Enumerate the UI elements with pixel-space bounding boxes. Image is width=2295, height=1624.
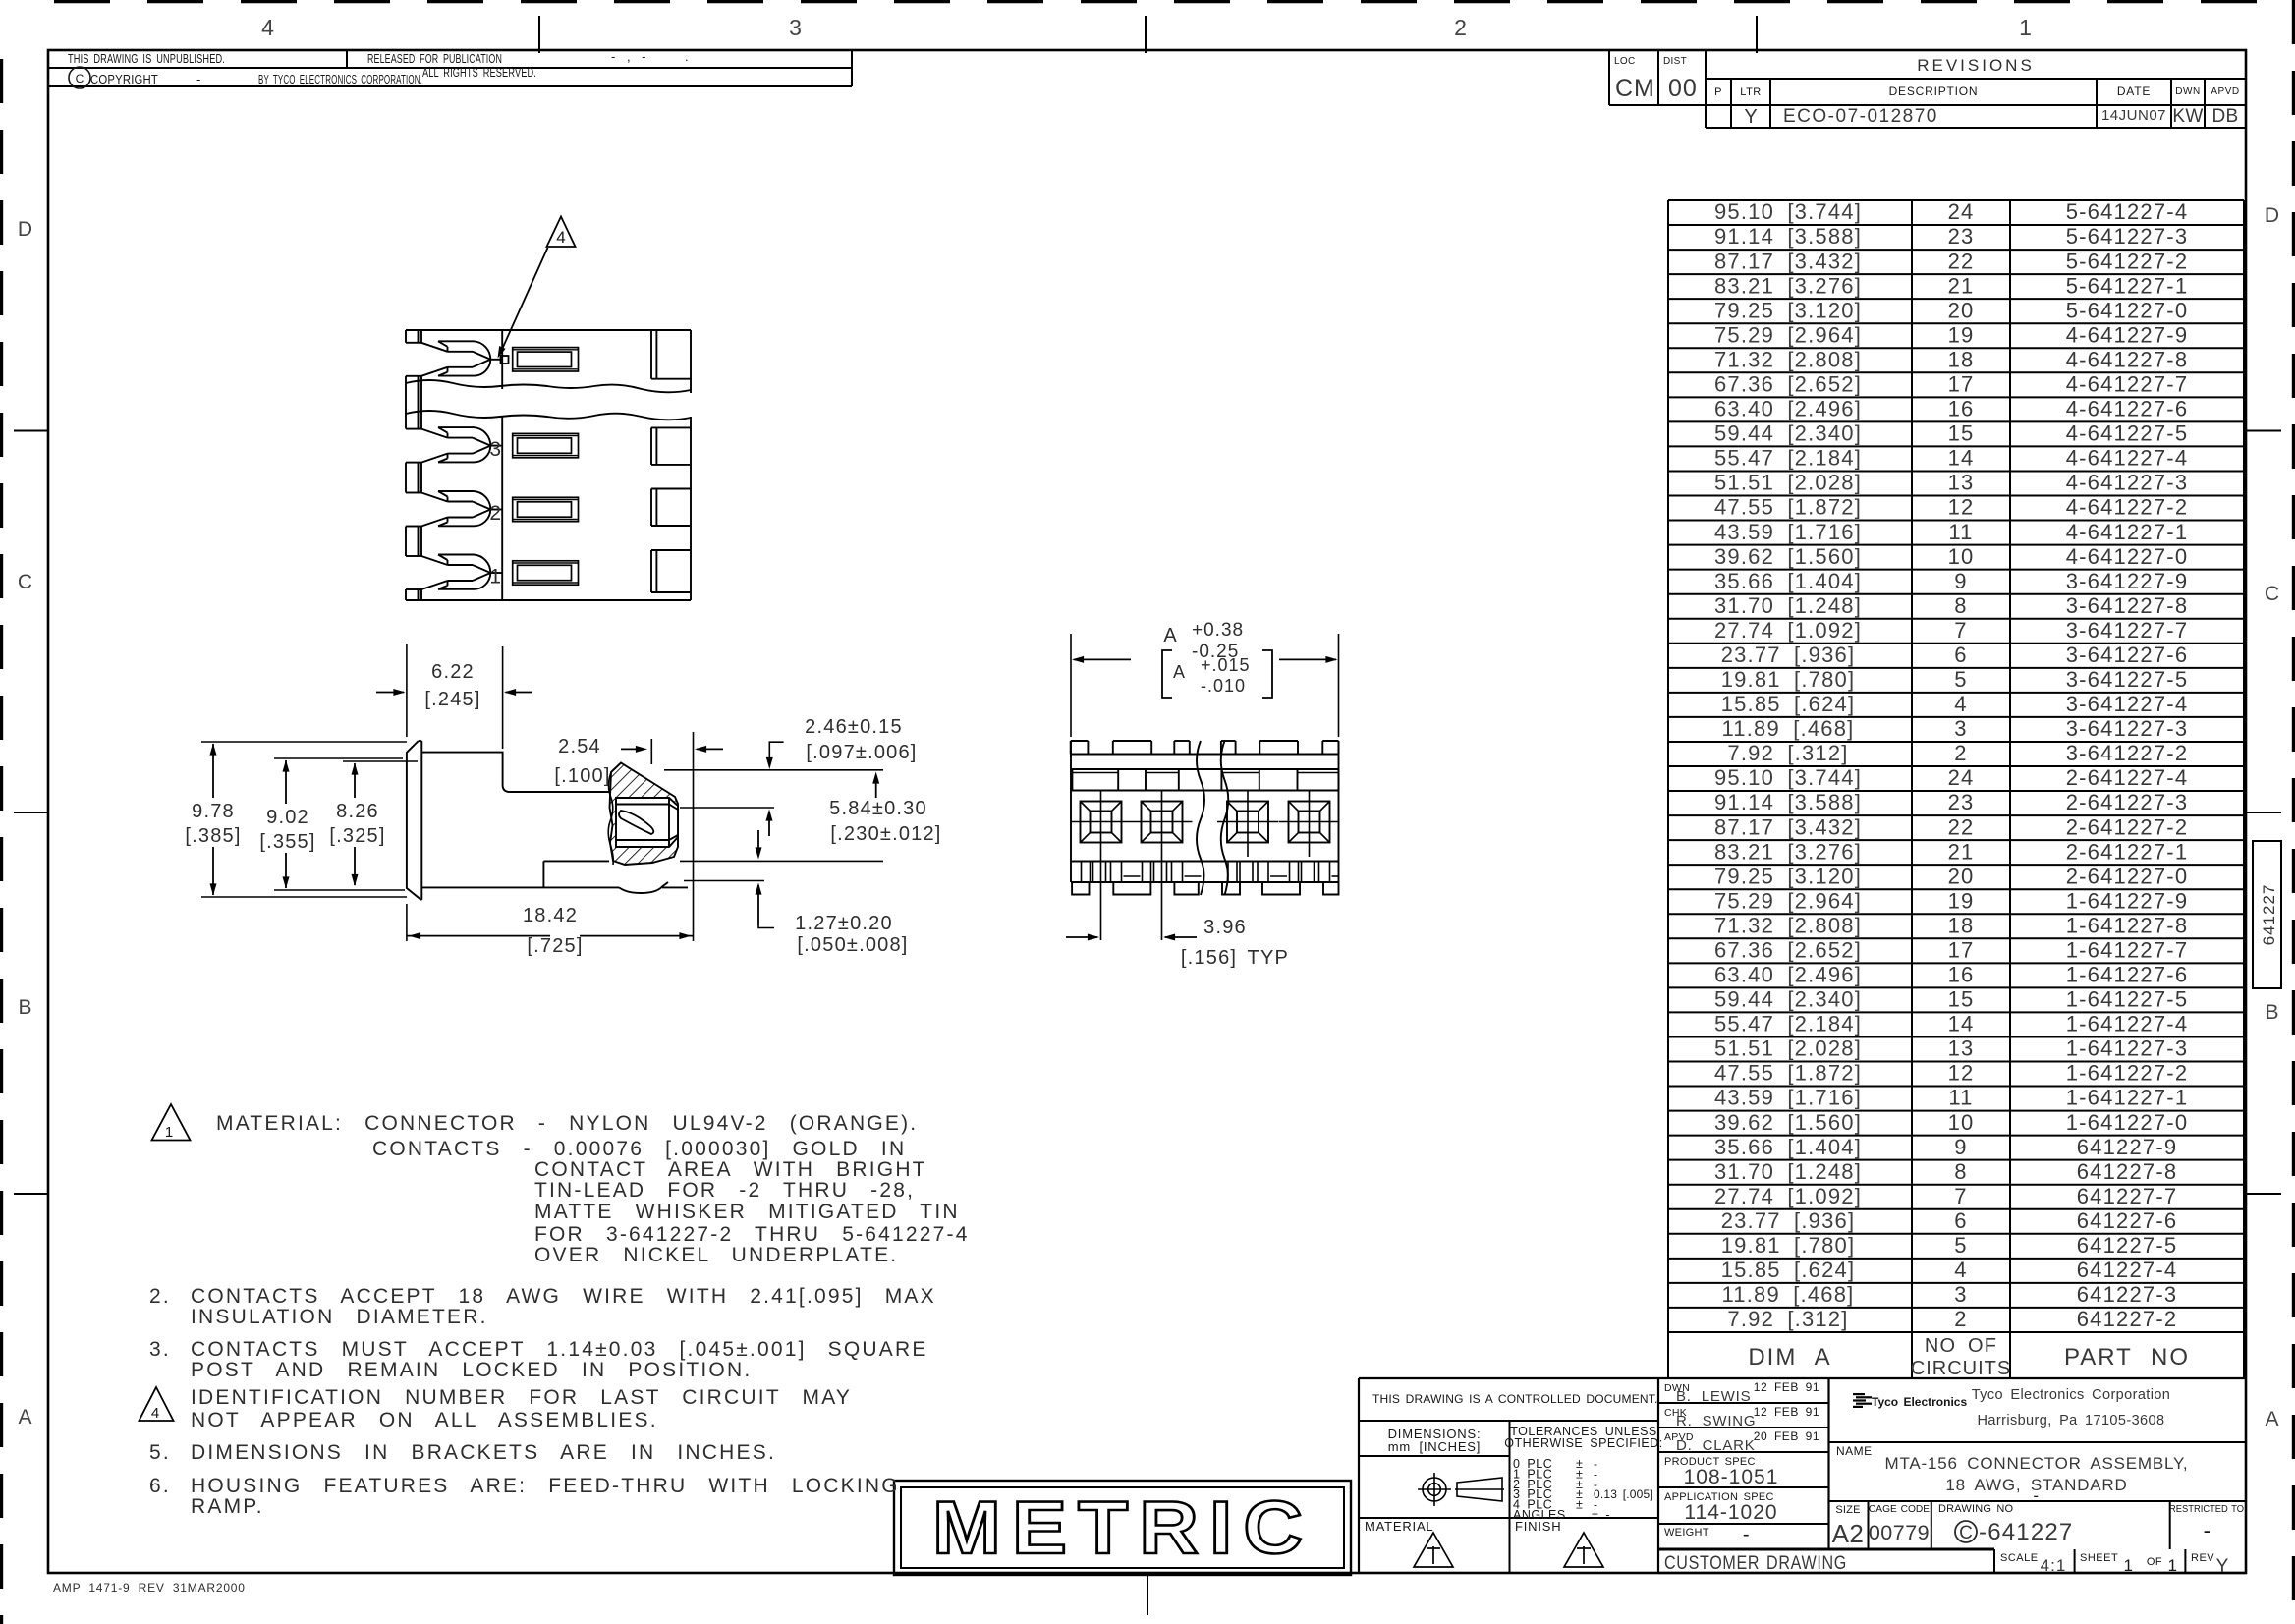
svg-text:3-641227-9: 3-641227-9 xyxy=(2066,569,2189,593)
svg-text:91.14 [3.588]: 91.14 [3.588] xyxy=(1714,224,1862,249)
svg-text:2-641227-0: 2-641227-0 xyxy=(2066,864,2189,888)
svg-text:4-641227-7: 4-641227-7 xyxy=(2066,372,2189,397)
svg-text:OVER NICKEL UNDERPLATE.: OVER NICKEL UNDERPLATE. xyxy=(534,1244,898,1266)
svg-text:2: 2 xyxy=(1954,1307,1967,1331)
svg-text:15.85 [.624]: 15.85 [.624] xyxy=(1721,692,1856,716)
svg-text:3-641227-6: 3-641227-6 xyxy=(2066,643,2189,667)
svg-text:11: 11 xyxy=(1948,520,1973,544)
svg-text:641227-4: 641227-4 xyxy=(2077,1258,2178,1282)
svg-text:4-641227-3: 4-641227-3 xyxy=(2066,471,2189,495)
svg-text:B: B xyxy=(18,996,32,1019)
svg-text:[.230±.012]: [.230±.012] xyxy=(830,823,941,845)
svg-text:[.156] TYP: [.156] TYP xyxy=(1181,947,1289,969)
svg-text:87.17 [3.432]: 87.17 [3.432] xyxy=(1714,814,1862,839)
svg-text:5.: 5. xyxy=(149,1441,171,1464)
svg-text:21: 21 xyxy=(1948,839,1975,864)
svg-text:1: 1 xyxy=(2019,15,2033,40)
svg-text:7: 7 xyxy=(1954,1184,1967,1208)
svg-text:15: 15 xyxy=(1948,987,1975,1012)
svg-text:[.097±.006]: [.097±.006] xyxy=(806,742,917,763)
svg-text:17: 17 xyxy=(1948,372,1975,397)
svg-text:55.47 [2.184]: 55.47 [2.184] xyxy=(1714,1012,1862,1036)
svg-text:1: 1 xyxy=(2124,1556,2135,1575)
svg-text:A2: A2 xyxy=(1832,1519,1865,1548)
svg-text:641227-2: 641227-2 xyxy=(2077,1307,2178,1331)
svg-text:31.70 [1.248]: 31.70 [1.248] xyxy=(1714,593,1862,618)
svg-text:BY TYCO ELECTRONICS CORPORATIO: BY TYCO ELECTRONICS CORPORATION. xyxy=(258,72,422,86)
svg-text:3-641227-2: 3-641227-2 xyxy=(2066,741,2189,765)
svg-text:4: 4 xyxy=(261,15,275,40)
svg-text:3: 3 xyxy=(1954,1282,1967,1307)
svg-text:12: 12 xyxy=(1948,495,1975,520)
svg-text:DESCRIPTION: DESCRIPTION xyxy=(1889,84,1979,98)
svg-text:641227-5: 641227-5 xyxy=(2077,1233,2178,1258)
svg-text:AMP 1471-9 REV 31MAR2000: AMP 1471-9 REV 31MAR2000 xyxy=(53,1581,246,1595)
svg-text:20: 20 xyxy=(1948,864,1975,888)
svg-text:95.10 [3.744]: 95.10 [3.744] xyxy=(1714,765,1862,790)
svg-text:641227: 641227 xyxy=(2260,884,2278,946)
svg-text:19: 19 xyxy=(1948,888,1975,913)
svg-text:1-641227-0: 1-641227-0 xyxy=(2066,1110,2189,1135)
svg-text:+0.38: +0.38 xyxy=(1192,620,1244,641)
svg-text:-: - xyxy=(196,72,202,86)
svg-text:1-641227-6: 1-641227-6 xyxy=(2066,963,2189,987)
svg-text:ALL RIGHTS RESERVED.: ALL RIGHTS RESERVED. xyxy=(422,65,536,80)
svg-text:2: 2 xyxy=(1454,15,1468,40)
svg-text:- , -: - , - xyxy=(611,49,647,64)
svg-text:[.245]: [.245] xyxy=(424,689,480,710)
svg-text:+.015: +.015 xyxy=(1201,655,1251,675)
svg-text:Tyco Electronics: Tyco Electronics xyxy=(1872,1395,1967,1409)
svg-text:[.725]: [.725] xyxy=(527,935,583,957)
svg-text:IDENTIFICATION NUMBER FOR LAST: IDENTIFICATION NUMBER FOR LAST CIRCUIT M… xyxy=(191,1386,852,1409)
svg-text:DIMENSIONS IN BRACKETS ARE IN: DIMENSIONS IN BRACKETS ARE IN INCHES. xyxy=(191,1441,776,1464)
svg-text:79.25 [3.120]: 79.25 [3.120] xyxy=(1714,864,1862,888)
svg-text:2: 2 xyxy=(489,502,501,525)
svg-text:D. CLARK: D. CLARK xyxy=(1676,1437,1756,1454)
svg-text:75.29 [2.964]: 75.29 [2.964] xyxy=(1714,888,1862,913)
svg-text:PART NO: PART NO xyxy=(2064,1344,2190,1371)
svg-text:THIS DRAWING IS A CONTROLLED D: THIS DRAWING IS A CONTROLLED DOCUMENT. xyxy=(1372,1392,1658,1406)
svg-text:1-641227-2: 1-641227-2 xyxy=(2066,1061,2189,1086)
svg-text:B: B xyxy=(2265,1001,2279,1024)
svg-text:COPYRIGHT: COPYRIGHT xyxy=(90,72,158,86)
svg-text:1: 1 xyxy=(165,1124,173,1141)
svg-text:15.85 [.624]: 15.85 [.624] xyxy=(1721,1258,1856,1282)
svg-text:5-641227-1: 5-641227-1 xyxy=(2066,273,2189,298)
svg-text:DIM A: DIM A xyxy=(1748,1344,1831,1371)
svg-text:RESTRICTED TO: RESTRICTED TO xyxy=(2169,1504,2244,1515)
svg-text:4-641227-0: 4-641227-0 xyxy=(2066,544,2189,569)
svg-text:NO OF: NO OF xyxy=(1925,1335,1997,1357)
svg-text:METRIC: METRIC xyxy=(932,1486,1314,1570)
svg-text:3-641227-8: 3-641227-8 xyxy=(2066,593,2189,618)
svg-text:KW: KW xyxy=(2172,106,2203,127)
svg-text:CIRCUITS: CIRCUITS xyxy=(1911,1358,2011,1379)
svg-text:79.25 [3.120]: 79.25 [3.120] xyxy=(1714,298,1862,322)
svg-text:1.27±0.20: 1.27±0.20 xyxy=(795,913,893,934)
svg-text:5: 5 xyxy=(1954,1233,1967,1258)
svg-text:1-641227-5: 1-641227-5 xyxy=(2066,987,2189,1012)
svg-text:23.77 [.936]: 23.77 [.936] xyxy=(1721,1208,1856,1233)
svg-text:00779: 00779 xyxy=(1869,1521,1930,1544)
svg-text:1-641227-8: 1-641227-8 xyxy=(2066,913,2189,937)
svg-text:11.89 [.468]: 11.89 [.468] xyxy=(1722,1282,1855,1307)
svg-text:24: 24 xyxy=(1948,199,1975,224)
svg-text:1-641227-9: 1-641227-9 xyxy=(2066,888,2189,913)
svg-text:14: 14 xyxy=(1948,446,1975,471)
svg-text:R. SWING: R. SWING xyxy=(1676,1413,1756,1429)
svg-text:12 FEB 91: 12 FEB 91 xyxy=(1754,1380,1819,1394)
svg-text:NOT APPEAR ON ALL ASSEMBLIES.: NOT APPEAR ON ALL ASSEMBLIES. xyxy=(191,1409,658,1431)
svg-text:1-641227-7: 1-641227-7 xyxy=(2066,937,2189,962)
svg-text:SHEET: SHEET xyxy=(2080,1552,2118,1564)
svg-text:MTA-156 CONNECTOR ASSEMBLY,: MTA-156 CONNECTOR ASSEMBLY, xyxy=(1885,1454,2189,1473)
svg-text:3.96: 3.96 xyxy=(1203,917,1247,938)
svg-text:RAMP.: RAMP. xyxy=(191,1495,264,1518)
svg-text:641227-9: 641227-9 xyxy=(2077,1135,2178,1159)
svg-text:[.355]: [.355] xyxy=(259,831,315,853)
svg-text:-: - xyxy=(1743,1524,1751,1545)
svg-text:63.40 [2.496]: 63.40 [2.496] xyxy=(1714,963,1862,987)
svg-text:18: 18 xyxy=(1948,913,1975,937)
svg-text:4:1: 4:1 xyxy=(2041,1556,2067,1575)
svg-text:[.325]: [.325] xyxy=(329,825,385,847)
svg-text:MATERIAL: CONNECTOR - NYLON UL: MATERIAL: CONNECTOR - NYLON UL94V-2 (ORA… xyxy=(216,1112,918,1135)
svg-text:mm [INCHES]: mm [INCHES] xyxy=(1388,1439,1481,1454)
svg-text:22: 22 xyxy=(1948,249,1975,273)
svg-text:20 FEB 91: 20 FEB 91 xyxy=(1754,1429,1819,1443)
svg-text:Y: Y xyxy=(2216,1556,2229,1577)
svg-text:1-641227-1: 1-641227-1 xyxy=(2066,1086,2189,1110)
svg-text:20: 20 xyxy=(1948,298,1975,322)
svg-text:87.17 [3.432]: 87.17 [3.432] xyxy=(1714,249,1862,273)
svg-text:22: 22 xyxy=(1948,814,1975,839)
svg-text:6.22: 6.22 xyxy=(431,661,475,683)
svg-text:19.81 [.780]: 19.81 [.780] xyxy=(1721,667,1856,692)
svg-text:RELEASED FOR PUBLICATION: RELEASED FOR PUBLICATION xyxy=(367,51,502,66)
svg-text:71.32 [2.808]: 71.32 [2.808] xyxy=(1714,913,1862,937)
svg-text:MATTE WHISKER MITIGATED TIN: MATTE WHISKER MITIGATED TIN xyxy=(534,1201,960,1223)
svg-text:19: 19 xyxy=(1948,322,1975,347)
svg-text:27.74 [1.092]: 27.74 [1.092] xyxy=(1714,618,1862,643)
svg-text:91.14 [3.588]: 91.14 [3.588] xyxy=(1714,790,1862,814)
svg-text:13: 13 xyxy=(1948,471,1975,495)
svg-text:A: A xyxy=(1173,662,1185,682)
svg-text:5-641227-3: 5-641227-3 xyxy=(2066,224,2189,249)
svg-text:-.010: -.010 xyxy=(1201,676,1246,696)
svg-text:14: 14 xyxy=(1948,1012,1975,1036)
svg-text:2-641227-3: 2-641227-3 xyxy=(2066,790,2189,814)
svg-text:19.81 [.780]: 19.81 [.780] xyxy=(1721,1233,1856,1258)
svg-text:75.29 [2.964]: 75.29 [2.964] xyxy=(1714,322,1862,347)
svg-text:12: 12 xyxy=(1948,1061,1975,1086)
svg-text:DB: DB xyxy=(2212,106,2239,127)
svg-text:9.02: 9.02 xyxy=(266,807,309,828)
svg-text:43.59 [1.716]: 43.59 [1.716] xyxy=(1714,520,1862,544)
svg-text:A: A xyxy=(18,1406,32,1428)
svg-text:23.77 [.936]: 23.77 [.936] xyxy=(1721,643,1856,667)
svg-text:59.44 [2.340]: 59.44 [2.340] xyxy=(1714,421,1862,446)
svg-text:23: 23 xyxy=(1948,224,1975,249)
svg-text:CM: CM xyxy=(1615,75,1655,102)
svg-text:[.100]: [.100] xyxy=(554,765,610,787)
svg-text:C: C xyxy=(1959,1523,1973,1543)
svg-text:18: 18 xyxy=(1948,347,1975,371)
svg-text:4-641227-4: 4-641227-4 xyxy=(2066,446,2189,471)
svg-text:51.51 [2.028]: 51.51 [2.028] xyxy=(1714,471,1862,495)
svg-text:OTHERWISE SPECIFIED:: OTHERWISE SPECIFIED: xyxy=(1504,1436,1662,1450)
svg-text:95.10 [3.744]: 95.10 [3.744] xyxy=(1714,199,1862,224)
svg-text:83.21 [3.276]: 83.21 [3.276] xyxy=(1714,839,1862,864)
svg-text:POST AND REMAIN LOCKED IN POSI: POST AND REMAIN LOCKED IN POSITION. xyxy=(191,1359,752,1381)
svg-text:2-641227-1: 2-641227-1 xyxy=(2066,839,2189,864)
svg-text:±: ± xyxy=(1576,1498,1583,1512)
svg-text:CUSTOMER DRAWING: CUSTOMER DRAWING xyxy=(1664,1553,1847,1574)
svg-text:13: 13 xyxy=(1948,1036,1975,1061)
svg-text:P: P xyxy=(1714,86,1722,98)
svg-text:SIZE: SIZE xyxy=(1835,1504,1860,1516)
svg-text:C: C xyxy=(76,72,84,85)
svg-text:641227-7: 641227-7 xyxy=(2077,1184,2178,1208)
svg-text:FINISH: FINISH xyxy=(1515,1519,1561,1534)
svg-text:A: A xyxy=(1163,625,1177,646)
svg-text:51.51 [2.028]: 51.51 [2.028] xyxy=(1714,1036,1862,1061)
svg-text:83.21 [3.276]: 83.21 [3.276] xyxy=(1714,273,1862,298)
svg-text:47.55 [1.872]: 47.55 [1.872] xyxy=(1714,1061,1862,1086)
svg-text:27.74 [1.092]: 27.74 [1.092] xyxy=(1714,1184,1862,1208)
svg-text:4-641227-1: 4-641227-1 xyxy=(2066,520,2189,544)
svg-text:10: 10 xyxy=(1948,544,1975,569)
svg-text:-641227: -641227 xyxy=(1979,1519,2073,1545)
svg-text:INSULATION DIAMETER.: INSULATION DIAMETER. xyxy=(191,1306,488,1328)
svg-text:CAGE CODE: CAGE CODE xyxy=(1869,1504,1930,1515)
svg-text:Y: Y xyxy=(1744,106,1757,128)
svg-text:TIN-LEAD FOR -2 THRU -28,: TIN-LEAD FOR -2 THRU -28, xyxy=(534,1179,915,1202)
svg-text:39.62 [1.560]: 39.62 [1.560] xyxy=(1714,1110,1862,1135)
svg-text:17: 17 xyxy=(1948,937,1975,962)
svg-text:0.13 [.005]: 0.13 [.005] xyxy=(1594,1487,1653,1501)
svg-text:641227-3: 641227-3 xyxy=(2077,1282,2178,1307)
svg-text:4-641227-6: 4-641227-6 xyxy=(2066,397,2189,421)
svg-text:10: 10 xyxy=(1948,1110,1975,1135)
svg-text:1-641227-4: 1-641227-4 xyxy=(2066,1012,2189,1036)
svg-text:21: 21 xyxy=(1948,273,1975,298)
svg-text:2: 2 xyxy=(1954,741,1967,765)
svg-text:15: 15 xyxy=(1948,421,1975,446)
svg-text:-: - xyxy=(2033,1486,2040,1505)
svg-text:3-641227-7: 3-641227-7 xyxy=(2066,618,2189,643)
svg-text:1-641227-3: 1-641227-3 xyxy=(2066,1036,2189,1061)
svg-text:[.050±.008]: [.050±.008] xyxy=(797,934,908,956)
svg-text:641227-6: 641227-6 xyxy=(2077,1208,2178,1233)
svg-text:REVISIONS: REVISIONS xyxy=(1917,56,2035,75)
svg-text:DWN: DWN xyxy=(2175,86,2200,97)
svg-text:4-641227-9: 4-641227-9 xyxy=(2066,322,2189,347)
svg-text:Tyco Electronics Corporation: Tyco Electronics Corporation xyxy=(1972,1387,2171,1403)
svg-text:REV: REV xyxy=(2191,1552,2214,1564)
svg-text:LTR: LTR xyxy=(1740,86,1761,98)
svg-text:43.59 [1.716]: 43.59 [1.716] xyxy=(1714,1086,1862,1110)
svg-text:8.26: 8.26 xyxy=(336,801,379,822)
svg-text:DATE: DATE xyxy=(2117,84,2151,98)
svg-text:3: 3 xyxy=(1954,716,1967,741)
svg-text:39.62 [1.560]: 39.62 [1.560] xyxy=(1714,544,1862,569)
svg-text:CONTACTS MUST ACCEPT 1.14±0.03: CONTACTS MUST ACCEPT 1.14±0.03 [.045±.00… xyxy=(191,1338,928,1361)
svg-text:47.55 [1.872]: 47.55 [1.872] xyxy=(1714,495,1862,520)
svg-text:5-641227-4: 5-641227-4 xyxy=(2066,199,2189,224)
svg-text:C: C xyxy=(18,571,33,593)
svg-text:67.36 [2.652]: 67.36 [2.652] xyxy=(1714,372,1862,397)
svg-text:NAME: NAME xyxy=(1836,1444,1873,1458)
svg-text:WEIGHT: WEIGHT xyxy=(1664,1527,1709,1539)
svg-text:SCALE: SCALE xyxy=(2000,1552,2039,1564)
svg-text:DIST: DIST xyxy=(1663,56,1687,67)
svg-text:4: 4 xyxy=(151,1405,159,1422)
svg-text:CONTACT AREA WITH BRIGHT: CONTACT AREA WITH BRIGHT xyxy=(534,1158,927,1181)
svg-text:35.66 [1.404]: 35.66 [1.404] xyxy=(1714,1135,1862,1159)
svg-text:8: 8 xyxy=(1954,1159,1967,1184)
svg-text:6: 6 xyxy=(1954,1208,1967,1233)
svg-text:18.42: 18.42 xyxy=(523,905,578,926)
svg-text:FOR 3-641227-2 THRU 5-641227-4: FOR 3-641227-2 THRU 5-641227-4 xyxy=(534,1223,970,1246)
svg-text:MATERIAL: MATERIAL xyxy=(1365,1519,1433,1534)
svg-text:00: 00 xyxy=(1668,75,1698,102)
svg-text:7: 7 xyxy=(1954,618,1967,643)
svg-text:71.32 [2.808]: 71.32 [2.808] xyxy=(1714,347,1862,371)
svg-text:24: 24 xyxy=(1948,765,1975,790)
svg-text:CONTACTS ACCEPT 18 AWG WIRE WI: CONTACTS ACCEPT 18 AWG WIRE WITH 2.41[.0… xyxy=(191,1285,936,1308)
svg-text:LOC: LOC xyxy=(1614,56,1635,67)
svg-text:B. LEWIS: B. LEWIS xyxy=(1676,1388,1751,1405)
svg-text:12 FEB 91: 12 FEB 91 xyxy=(1754,1405,1819,1419)
svg-text:2.46±0.15: 2.46±0.15 xyxy=(805,716,903,738)
svg-text:4-641227-8: 4-641227-8 xyxy=(2066,347,2189,371)
svg-text:DRAWING NO: DRAWING NO xyxy=(1938,1503,2014,1515)
svg-text:11.89 [.468]: 11.89 [.468] xyxy=(1722,716,1855,741)
svg-text:55.47 [2.184]: 55.47 [2.184] xyxy=(1714,446,1862,471)
svg-text:7.92 [.312]: 7.92 [.312] xyxy=(1727,741,1848,765)
svg-text:CONTACTS - 0.00076 [.000030] G: CONTACTS - 0.00076 [.000030] GOLD IN xyxy=(372,1138,906,1160)
svg-text:35.66 [1.404]: 35.66 [1.404] xyxy=(1714,569,1862,593)
svg-text:8: 8 xyxy=(1954,593,1967,618)
svg-text:67.36 [2.652]: 67.36 [2.652] xyxy=(1714,937,1862,962)
svg-text:3: 3 xyxy=(489,438,501,461)
svg-text:Harrisburg, Pa 17105-3608: Harrisburg, Pa 17105-3608 xyxy=(1978,1413,2165,1428)
svg-text:16: 16 xyxy=(1948,397,1975,421)
svg-text:3.: 3. xyxy=(149,1338,171,1361)
svg-text:± -: ± - xyxy=(1592,1508,1610,1522)
svg-text:5: 5 xyxy=(1954,667,1967,692)
svg-text:6.: 6. xyxy=(149,1475,171,1497)
svg-text:11: 11 xyxy=(1948,1086,1973,1110)
svg-text:.: . xyxy=(685,49,690,64)
svg-text:3-641227-3: 3-641227-3 xyxy=(2066,716,2189,741)
svg-text:59.44 [2.340]: 59.44 [2.340] xyxy=(1714,987,1862,1012)
svg-text:D: D xyxy=(2265,204,2280,227)
svg-text:3: 3 xyxy=(789,15,803,40)
svg-text:114-1020: 114-1020 xyxy=(1684,1501,1777,1524)
svg-text:2.54: 2.54 xyxy=(558,736,601,757)
svg-text:2-641227-4: 2-641227-4 xyxy=(2066,765,2189,790)
svg-text:23: 23 xyxy=(1948,790,1975,814)
svg-text:14JUN07: 14JUN07 xyxy=(2101,107,2166,124)
svg-text:63.40 [2.496]: 63.40 [2.496] xyxy=(1714,397,1862,421)
svg-text:ECO-07-012870: ECO-07-012870 xyxy=(1783,106,1938,127)
svg-text:108-1051: 108-1051 xyxy=(1684,1466,1779,1488)
svg-text:OF: OF xyxy=(2147,1556,2162,1568)
svg-text:2-641227-2: 2-641227-2 xyxy=(2066,814,2189,839)
svg-text:HOUSING FEATURES ARE: FEED-THR: HOUSING FEATURES ARE: FEED-THRU WITH LOC… xyxy=(191,1475,900,1497)
svg-text:4: 4 xyxy=(556,228,565,247)
svg-text:5-641227-0: 5-641227-0 xyxy=(2066,298,2189,322)
svg-text:31.70 [1.248]: 31.70 [1.248] xyxy=(1714,1159,1862,1184)
svg-text:6: 6 xyxy=(1954,643,1967,667)
svg-text:7.92 [.312]: 7.92 [.312] xyxy=(1727,1307,1848,1331)
svg-text:THIS DRAWING IS UNPUBLISHED.: THIS DRAWING IS UNPUBLISHED. xyxy=(68,51,225,66)
svg-text:3-641227-5: 3-641227-5 xyxy=(2066,667,2189,692)
svg-text:1: 1 xyxy=(489,566,501,588)
svg-text:-: - xyxy=(2204,1518,2212,1542)
svg-text:2.: 2. xyxy=(149,1285,171,1308)
svg-text:9.78: 9.78 xyxy=(192,801,235,822)
svg-text:4-641227-2: 4-641227-2 xyxy=(2066,495,2189,520)
svg-text:APVD: APVD xyxy=(2211,86,2239,97)
svg-text:1: 1 xyxy=(2168,1556,2179,1575)
svg-text:4: 4 xyxy=(1954,692,1967,716)
svg-text:[.385]: [.385] xyxy=(185,825,241,847)
svg-text:4-641227-5: 4-641227-5 xyxy=(2066,421,2189,446)
svg-text:16: 16 xyxy=(1948,963,1975,987)
svg-text:A: A xyxy=(2265,1408,2279,1430)
svg-text:5-641227-2: 5-641227-2 xyxy=(2066,249,2189,273)
svg-text:9: 9 xyxy=(1954,1135,1967,1159)
svg-text:5.84±0.30: 5.84±0.30 xyxy=(829,798,927,819)
svg-text:3-641227-4: 3-641227-4 xyxy=(2066,692,2189,716)
svg-text:C: C xyxy=(2265,583,2280,605)
svg-text:9: 9 xyxy=(1954,569,1967,593)
svg-text:4: 4 xyxy=(1954,1258,1967,1282)
svg-text:D: D xyxy=(18,218,33,241)
svg-text:641227-8: 641227-8 xyxy=(2077,1159,2178,1184)
